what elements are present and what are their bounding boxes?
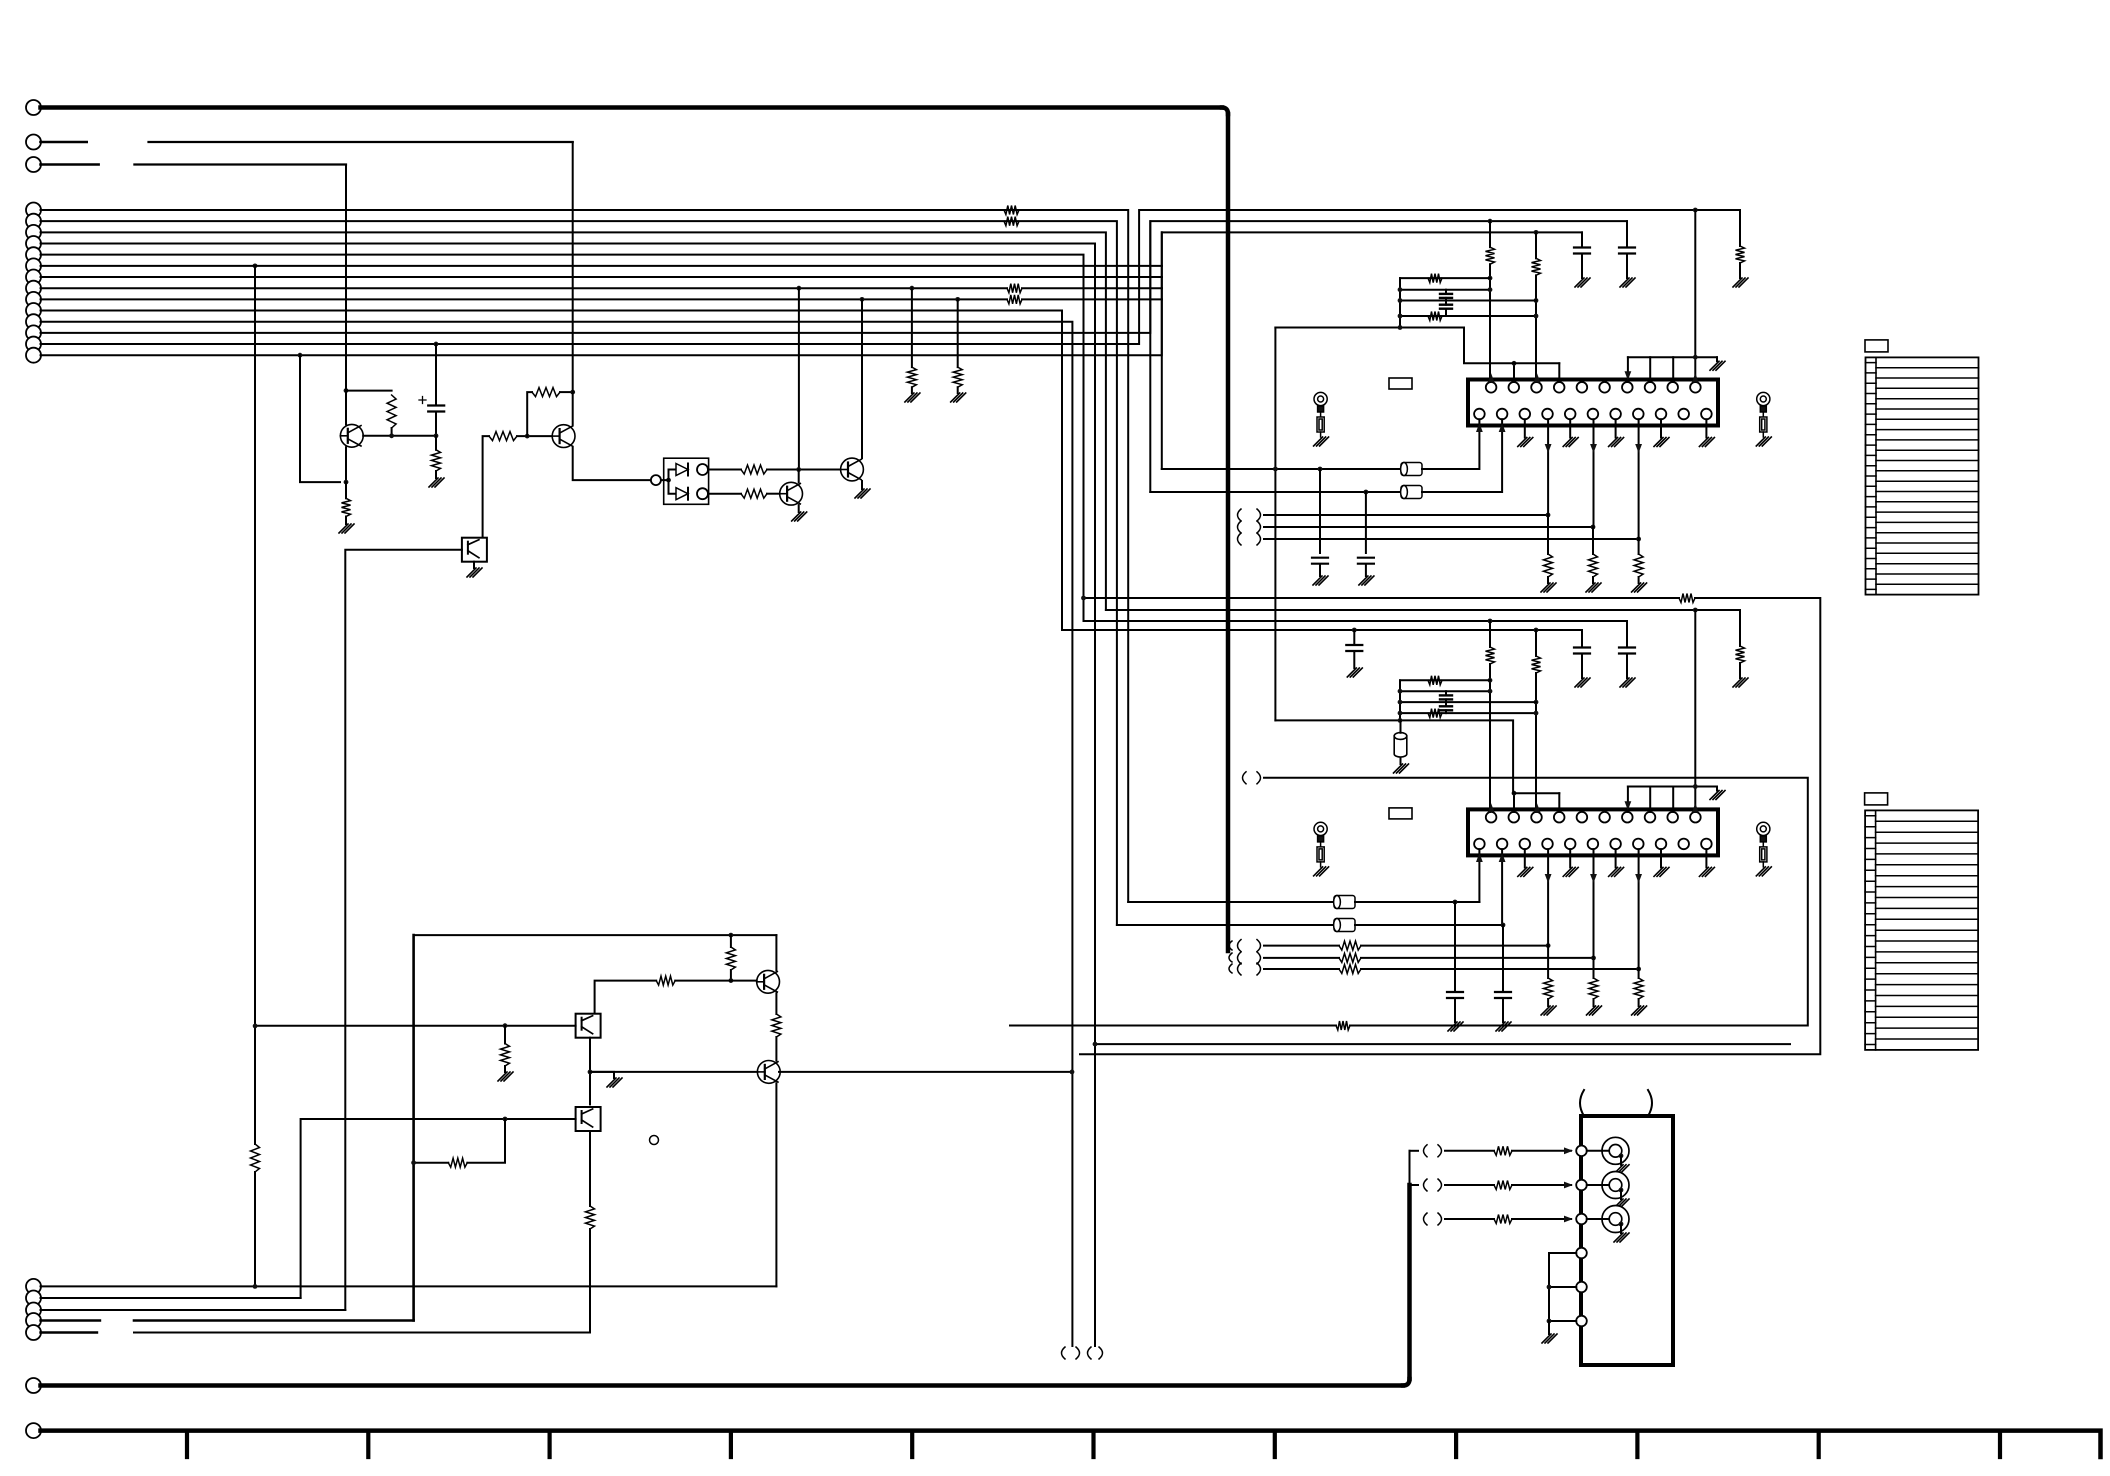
node m2 triple3 bbox=[1636, 967, 1641, 972]
node m2 triple2 bbox=[1591, 956, 1596, 961]
resistor R33s shunt bbox=[1634, 978, 1643, 999]
resistor R14 bbox=[726, 947, 735, 970]
wire rca pin 6 stub bbox=[1549, 1320, 1576, 1322]
node IC2 cluster L2 right bbox=[1488, 689, 1493, 694]
ground under IC2-Rc bbox=[1733, 678, 1748, 687]
wire IC2 riser pin t1 lower bbox=[1489, 664, 1491, 812]
ground under IC1-Cb bbox=[1575, 278, 1590, 287]
RCA jack J2 bbox=[1602, 1172, 1629, 1199]
wire emitter to R9 bbox=[345, 482, 347, 498]
node bead line / C3 bbox=[1364, 490, 1369, 495]
ground under jack J2 bbox=[1614, 1199, 1629, 1208]
node row9-x958 bbox=[955, 297, 960, 302]
resistor IC1-Rc bbox=[1736, 246, 1745, 263]
wire C7 gnd lead bbox=[1353, 652, 1355, 668]
IC IC1 top pin t9 bbox=[1667, 382, 1678, 393]
node rca gnd bus mid bbox=[1547, 1285, 1552, 1290]
wire m2 triple line 3 b bbox=[1361, 968, 1639, 970]
resistor R32s shunt bbox=[1589, 978, 1598, 999]
wire m2 triple3 shunt lead bbox=[1638, 969, 1640, 978]
resistor R23 shunt bbox=[1634, 554, 1643, 577]
wire IC2 cluster caps spine mid bbox=[1445, 699, 1447, 706]
connector pin B3 bbox=[26, 225, 41, 240]
transistor Q5 bbox=[757, 970, 780, 993]
IC IC2 top pin t8 bbox=[1645, 812, 1656, 823]
break mark rca3 l bbox=[1424, 1213, 1428, 1225]
wire FB4 to IC2 b2 bbox=[1355, 924, 1502, 926]
wire IC2 cluster line1 bbox=[1400, 679, 1490, 681]
RCA box pin 6 bbox=[1576, 1316, 1587, 1327]
node IC1 cluster L4 right bbox=[1534, 314, 1539, 319]
arrow down on IC2 drop bbox=[1545, 874, 1552, 883]
resistor IC2-Rd on cluster line1 bbox=[1428, 676, 1442, 685]
wire bus bottom r3 riser to PC1 input bbox=[345, 550, 462, 1310]
break hooks at thick trunk end bbox=[1229, 941, 1232, 950]
wire IC2 riser pin t3 lower bbox=[1535, 673, 1537, 812]
ground at Q6 base stub bbox=[607, 1078, 622, 1087]
wire m2 triple2 shunt lead bbox=[1593, 958, 1595, 978]
node IC2 feed2/riser1 bbox=[1488, 619, 1493, 624]
break mark rca3 r bbox=[1438, 1213, 1442, 1225]
IC IC1 top pin t7 bbox=[1622, 382, 1633, 393]
wire base to R8 bbox=[435, 436, 437, 450]
capacitor IC1-Ca bbox=[1619, 248, 1635, 254]
wire FB2 to module1 pin b2 bbox=[1422, 491, 1502, 493]
wire R7 to base line bbox=[391, 428, 393, 436]
ground under IC2 b9 bbox=[1654, 867, 1669, 876]
wire triple1 to R bbox=[1547, 515, 1549, 554]
ground under IC2 b11 bbox=[1699, 867, 1714, 876]
wire R8 to ground bbox=[435, 471, 437, 478]
resistor network RN1 right cell rungs bbox=[1876, 368, 1979, 585]
arrow into IC1 t10 bbox=[1692, 373, 1699, 382]
resistor R9 emitter bbox=[342, 498, 351, 516]
wire C5 gnd lead bbox=[1502, 999, 1504, 1022]
wire thick power net from P1 to right then down bbox=[41, 105, 1223, 110]
wire bus row9 after series resistor bbox=[1022, 298, 1162, 300]
RCA connector box bbox=[1581, 1116, 1673, 1365]
ground under rca bus bbox=[1542, 1334, 1557, 1343]
resistor R1 series in bus row1 bbox=[1004, 206, 1019, 215]
break mark left m2-triple2 bbox=[1238, 952, 1242, 964]
wire m2 triple line 3 a bbox=[1264, 968, 1339, 970]
wire C5 lead bbox=[1502, 925, 1504, 991]
RCA jack J1 bbox=[1602, 1137, 1629, 1164]
connector pin B10 bbox=[26, 303, 41, 318]
wire IC1 cluster line4 bbox=[1400, 315, 1536, 317]
wire pin to jack 2 bbox=[1587, 1184, 1609, 1186]
wire IC1 cluster line1 bbox=[1400, 277, 1490, 279]
break mark right m2-triple1 bbox=[1257, 940, 1261, 952]
wire C3 to ground bbox=[1365, 565, 1367, 577]
wire IC1 cluster caps spine upper bbox=[1445, 290, 1447, 294]
resistor R3 series in bus row8 bbox=[1007, 284, 1022, 293]
wire R22 to ground bbox=[1592, 577, 1594, 583]
wire C4 lead bbox=[1454, 902, 1456, 991]
wire branch down/left to thick riser bbox=[467, 1119, 505, 1163]
resistor R2 series in bus row2 bbox=[1004, 217, 1019, 226]
wire m1 triple line 3 bbox=[1264, 538, 1639, 540]
wire cap C7 lead bbox=[1353, 630, 1355, 644]
resistor network RN1 outline bbox=[1866, 357, 1979, 594]
node jack 1 ground tap bbox=[1619, 1153, 1624, 1158]
arrow into IC1 b1 bbox=[1476, 423, 1483, 432]
ferrite bead FB3 bbox=[1334, 896, 1355, 909]
wire collector to R7 bbox=[346, 390, 392, 392]
wire P3 stub bbox=[41, 163, 99, 166]
connector pin B1 bbox=[26, 203, 41, 218]
wire inner loop y778 to y1025 bbox=[1264, 778, 1808, 1026]
wire split to diode2 bbox=[669, 480, 677, 494]
ground under Q3 bbox=[792, 512, 807, 521]
wire R17 top lead bbox=[504, 1026, 506, 1044]
capacitor C1 polarized (x=436) bbox=[428, 406, 444, 412]
wire R13 to Q3 base bbox=[767, 493, 780, 495]
ground under R32s bbox=[1587, 1006, 1602, 1015]
IC IC2 bottom pin b10 bbox=[1678, 839, 1689, 850]
wire IC2 bottom pin drop bbox=[1547, 849, 1549, 945]
wire IC2 rail to pin bbox=[1627, 787, 1629, 812]
node PC2 emitter / Q6 base bbox=[588, 1070, 593, 1075]
ground under C7 bbox=[1347, 668, 1362, 677]
resistor R16 Q5 emitter bbox=[772, 1014, 781, 1037]
RCA box pin 4 bbox=[1576, 1248, 1587, 1259]
wire Q2 emitter to diode pack bbox=[573, 448, 651, 481]
resistor R15 bbox=[656, 976, 675, 985]
wire thin riser continuation bbox=[1409, 1151, 1411, 1185]
node bead469/x1275 bbox=[1273, 467, 1278, 472]
node row9-x862 bbox=[860, 297, 865, 302]
transistor Q3 bbox=[780, 482, 803, 505]
wire module2 feed y=630 bbox=[1062, 629, 1582, 631]
node row8-x799 bbox=[797, 286, 802, 291]
wire C2 to ground bbox=[1319, 565, 1321, 577]
break mark y778 r bbox=[1257, 772, 1261, 784]
capacitor IC2-Cc between cluster lines 2-3 bbox=[1440, 695, 1452, 699]
wire m2 triple line 1 b bbox=[1361, 945, 1548, 947]
ferrite bead FB4 bbox=[1334, 919, 1355, 932]
wire module2 feed y=621 bbox=[1084, 620, 1628, 622]
IC IC1 top pin t2 bbox=[1509, 382, 1520, 393]
ground under IC1 b7 bbox=[1609, 438, 1624, 447]
node row13 capacitor tap bbox=[434, 342, 439, 347]
wire IC2 cluster line2 bbox=[1400, 690, 1490, 692]
wire IC1 pin b9 ground stub bbox=[1660, 419, 1662, 437]
IC IC1 top pin t1 bbox=[1486, 382, 1497, 393]
wire m2 triple1 shunt lead bbox=[1547, 946, 1549, 978]
connector pin B5 bbox=[26, 247, 41, 262]
node jack 2 ground tap bbox=[1619, 1188, 1624, 1193]
wire bus row6 bbox=[41, 265, 1163, 267]
ground under IC1-Rc bbox=[1733, 278, 1748, 287]
IC IC2 label box bbox=[1389, 808, 1412, 819]
ground under IC2 b7 bbox=[1609, 867, 1624, 876]
capacitor IC1-Cd between cluster lines 3-4 bbox=[1440, 305, 1452, 309]
IC IC2 connector body bbox=[1468, 809, 1718, 855]
connector pin P1 (thick net) bbox=[26, 100, 41, 115]
wire C1 bottom lead to base line bbox=[435, 412, 437, 436]
resistor R31 bbox=[1339, 941, 1361, 950]
ground under IC1-Ca bbox=[1620, 278, 1635, 287]
wire C3 lead bbox=[1365, 492, 1367, 553]
wire rca feed 2 a bbox=[1445, 1184, 1494, 1186]
node IC2 feed3/riser3 bbox=[1534, 628, 1539, 633]
resistor network RN2 label box bbox=[1865, 793, 1888, 805]
wire row9 branch down to Q4 collector bbox=[861, 299, 863, 458]
ring terminal IC1-TL bbox=[1314, 392, 1327, 437]
wire IC1 rail to pin bbox=[1649, 357, 1651, 382]
wire IC2 riser pin t10 bbox=[1694, 610, 1696, 812]
wire riser to break row2 bbox=[1410, 1184, 1419, 1186]
wire bottom row3 stub bbox=[41, 1309, 346, 1311]
opto-isolator PC2 bbox=[576, 1014, 601, 1038]
wire riser to break row1 bbox=[1410, 1150, 1419, 1152]
wire thick video riser bbox=[1407, 1185, 1412, 1379]
connector pin D2 bbox=[26, 1291, 41, 1306]
node IC1 line5 / cluster left bbox=[1398, 325, 1403, 330]
wire Q4 emitter bbox=[861, 481, 863, 489]
break mark left m1-triple3 bbox=[1238, 533, 1242, 545]
resistor IC2-Re on cluster line4 bbox=[1428, 709, 1442, 718]
IC IC1 top pin t3 bbox=[1531, 382, 1542, 393]
wire thick video net corner up bbox=[1403, 1379, 1410, 1386]
resistor R12 bbox=[741, 465, 767, 474]
node IC2 jog/pin2 bbox=[1512, 791, 1517, 796]
wire top rail y=935 to Q5 collector bbox=[414, 934, 777, 936]
wire net T2 y=164.5 to Q1 collector bbox=[134, 163, 346, 165]
node C1/base bbox=[434, 433, 439, 438]
break mark bottom a1 bbox=[1062, 1347, 1066, 1359]
wire FB3 to IC2 b1 bbox=[1355, 901, 1479, 903]
wire IC1 riser pin t3 upper bbox=[1535, 232, 1537, 258]
wire IC1 cluster line3 bbox=[1400, 300, 1536, 302]
wire bus row13 riser at x1139 to feed y210 bbox=[41, 210, 1741, 344]
opto-isolator PC3 bbox=[576, 1107, 601, 1131]
wire rca feed 1 a bbox=[1445, 1150, 1494, 1152]
wire IC2 rail end stub bbox=[1716, 787, 1718, 791]
node IC1 cluster left bbox=[1398, 314, 1403, 319]
IC IC1 bottom pin b2 bbox=[1497, 409, 1508, 420]
wire C1 top lead (from bus row13) bbox=[435, 344, 437, 405]
arrow into rca pin 3 bbox=[1564, 1216, 1573, 1223]
wire R20 to bottom row5 corner bbox=[589, 1229, 591, 1333]
wire opto0 collector up to Q2 base line bbox=[483, 436, 489, 537]
wire IC1 pin b3 ground stub bbox=[1524, 419, 1526, 437]
wire IC2 bottom pin drop bbox=[1593, 849, 1595, 958]
arrow into IC2 t10 bbox=[1692, 803, 1699, 812]
IC IC2 bottom pin b9 bbox=[1656, 839, 1667, 850]
wire R31s gnd lead bbox=[1547, 999, 1549, 1006]
resistor R13 bbox=[741, 489, 767, 498]
ground under IC2-Cb bbox=[1575, 678, 1590, 687]
IC IC1 bottom pin b7 bbox=[1610, 409, 1621, 420]
IC IC2 top pin t1 bbox=[1486, 812, 1497, 823]
arrow down on IC1 drop bbox=[1545, 444, 1552, 453]
node y1072 at x1072 bbox=[1070, 1070, 1075, 1075]
break mark right m1-triple3 bbox=[1257, 533, 1261, 545]
RCA block caption parens bbox=[1580, 1090, 1584, 1116]
wire IC2 cluster caps spine upper bbox=[1445, 691, 1447, 695]
wire aux loop outer bbox=[1084, 597, 1680, 599]
resistor network RN2 right cell rungs bbox=[1876, 821, 1979, 1039]
wire Q5 emitter bbox=[775, 993, 777, 1014]
wire IC1 rail end stub bbox=[1716, 357, 1718, 361]
node m2 triple1 bbox=[1546, 943, 1551, 948]
IC IC1 bottom pin b5 bbox=[1565, 409, 1576, 420]
ground under PC1 bbox=[467, 568, 482, 577]
IC IC1 top pin t5 bbox=[1577, 382, 1588, 393]
ground under C6 bbox=[1394, 764, 1409, 773]
resistor network RN1 left cell rungs bbox=[1866, 363, 1877, 590]
node y1044/x1095 bbox=[1093, 1042, 1098, 1047]
resistor R8 below base line bbox=[432, 450, 441, 471]
connector pin B8 bbox=[26, 281, 41, 296]
arrow into IC1 t3 bbox=[1534, 373, 1541, 382]
wire IC2 bottom pin drop bbox=[1638, 849, 1640, 969]
transistor Q2 bbox=[552, 425, 575, 448]
wire IC1 Rc gnd lead bbox=[1739, 263, 1741, 278]
wire thick riser x=414 from bottom row4 bbox=[412, 935, 415, 1320]
arrow into IC1 t1 bbox=[1488, 373, 1495, 382]
test point TP1 bbox=[650, 1136, 659, 1145]
IC IC2 bottom pin b2 bbox=[1497, 839, 1508, 850]
wire IC1 jog to pin t4 bbox=[1558, 363, 1560, 382]
wire rca feed 3 a bbox=[1445, 1218, 1494, 1220]
resistor IC2-Ra bbox=[1486, 647, 1495, 664]
wire x1275 riser from bead line bbox=[1274, 469, 1276, 720]
IC IC2 top pin t6 bbox=[1599, 812, 1610, 823]
node row14 tap to Q1 bbox=[298, 353, 303, 358]
wire IC1 cap b gnd lead bbox=[1581, 255, 1583, 279]
wire T2 drop into Q1 collector bbox=[345, 165, 347, 425]
wire Q6 base line from PC2 emitter node bbox=[590, 1071, 757, 1073]
wire IC2 jog to pin t2 bbox=[1513, 793, 1515, 812]
IC IC1 bottom pin b9 bbox=[1656, 409, 1667, 420]
wire IC2 cap b gnd lead bbox=[1581, 655, 1583, 679]
wire bottom row2 stub bbox=[41, 1297, 301, 1299]
ground under C3 bbox=[1359, 576, 1374, 585]
RCA box pin 3 bbox=[1576, 1214, 1587, 1225]
wire IC1 jog to pin t2 bbox=[1513, 363, 1515, 382]
resistor R10 Q2 base bbox=[489, 432, 517, 441]
wire IC2 riser pin t1 upper bbox=[1489, 621, 1491, 647]
wire m1 triple line 2 bbox=[1264, 526, 1593, 528]
wire rca ground bus bbox=[1548, 1253, 1550, 1321]
wire Q4 collector bbox=[861, 299, 863, 458]
IC IC1 top pin t8 bbox=[1645, 382, 1656, 393]
node Q1 emitter bbox=[344, 480, 349, 485]
node m1 triple1 bbox=[1546, 513, 1551, 518]
RCA box pin 5 bbox=[1576, 1282, 1587, 1293]
IC IC2 top pin t4 bbox=[1554, 812, 1565, 823]
arrow into IC2 b1 bbox=[1476, 853, 1483, 862]
wire IC2 jog to pin t4 bbox=[1558, 793, 1560, 812]
resistor network RN1 label box bbox=[1865, 340, 1888, 352]
wire x1275 drop from line5 to bead line bbox=[1274, 328, 1276, 470]
wire bus row7 bbox=[41, 276, 1163, 278]
node rca gnd bus bottom bbox=[1547, 1319, 1552, 1324]
wire bottom row1 bbox=[41, 1285, 777, 1287]
connector pin D5 bbox=[26, 1325, 41, 1340]
wire IC1 cap a gnd lead bbox=[1626, 255, 1628, 279]
wire module2 feed y=610 bbox=[1106, 609, 1740, 611]
wire IC2 cluster left bus bbox=[1399, 680, 1401, 720]
resistor R20 PC3 emitter bbox=[586, 1206, 595, 1229]
node PC3 input branch bbox=[503, 1117, 508, 1122]
diode output terminal 2 bbox=[697, 488, 708, 499]
ground under R17 bbox=[498, 1072, 513, 1081]
wire IC1 rail to pin bbox=[1672, 357, 1674, 382]
ferrite bead FB1 bbox=[1401, 463, 1422, 476]
wire IC1 bottom pin drop bbox=[1593, 419, 1595, 527]
wire R32s gnd lead bbox=[1593, 999, 1595, 1006]
IC IC1 bottom pin b11 bbox=[1701, 409, 1712, 420]
wire ruler spine bbox=[41, 1431, 2101, 1457]
IC IC2 bottom pin b6 bbox=[1588, 839, 1599, 850]
connector pin P3 bbox=[26, 157, 41, 172]
wire bus row6 left vertical x=255 bbox=[254, 266, 256, 1144]
capacitor IC2-Ca bbox=[1619, 648, 1635, 654]
wire rca feed 3 b bbox=[1512, 1218, 1571, 1220]
wire bottom row2 riser to PC3 input bbox=[301, 1119, 576, 1298]
wire Q6 node out to x1072 bbox=[779, 1071, 1072, 1073]
node R19 / x414 bbox=[411, 1160, 416, 1165]
connector pin D3 bbox=[26, 1303, 41, 1318]
node IC1 jog/pin2 bbox=[1512, 361, 1517, 366]
resistor R19 bbox=[448, 1158, 467, 1167]
ring terminal IC2-TR bbox=[1757, 822, 1770, 867]
wire IC2 cap a gnd lead bbox=[1626, 655, 1628, 679]
IC IC2 top pin t5 bbox=[1577, 812, 1588, 823]
wire row8 branch to R5 bbox=[911, 288, 913, 367]
wire IC1 bottom pin drop bbox=[1638, 419, 1640, 539]
node IC1 cluster L2 right bbox=[1488, 287, 1493, 292]
capacitor IC1-Cb bbox=[1574, 248, 1590, 254]
arrow into IC2 b2 bbox=[1499, 853, 1506, 862]
wire IC2 cap b lead bbox=[1581, 630, 1583, 647]
connector pin B12 bbox=[26, 325, 41, 340]
node Q1 base / R7 bbox=[389, 433, 394, 438]
resistor R21 shunt bbox=[1544, 554, 1553, 577]
wire FB1 to module1 pin b1 bbox=[1422, 468, 1479, 470]
ground under IC2 b5 bbox=[1563, 867, 1578, 876]
wire IC1 right rail bbox=[1628, 356, 1717, 358]
wire diode out2 bbox=[708, 493, 741, 495]
wire C4 gnd lead bbox=[1454, 999, 1456, 1022]
wire diode out1 bbox=[708, 469, 741, 471]
resistor IC2-Rc bbox=[1736, 646, 1745, 663]
transistor Q4 bbox=[841, 458, 864, 481]
break mark left m2-triple1 bbox=[1238, 940, 1242, 952]
break mark left m2-triple3 bbox=[1238, 963, 1242, 975]
break mark y778 l bbox=[1243, 772, 1247, 784]
node Q1 collector junction bbox=[344, 388, 349, 393]
node out1 / Q3 collector bbox=[796, 467, 801, 472]
node Q2 collector bias bbox=[570, 390, 575, 395]
node IC2 cluster left bbox=[1398, 700, 1403, 705]
arrow down on IC2 drop bbox=[1590, 874, 1597, 883]
resistor R32 bbox=[1339, 953, 1361, 962]
IC IC2 bottom pin b3 bbox=[1520, 839, 1531, 850]
ground under jack J1 bbox=[1614, 1165, 1629, 1174]
wire bus row5 down at x1083 to module2 feed y621 bbox=[41, 255, 1084, 621]
break mark rca2 l bbox=[1424, 1179, 1428, 1191]
resistor network RN1 left column divider bbox=[1875, 357, 1877, 594]
IC IC2 top pin t3 bbox=[1531, 812, 1542, 823]
wire R14 top lead bbox=[730, 935, 732, 947]
wire IC2 cluster line5 long link bbox=[1275, 720, 1559, 793]
wire long link y=1044 bbox=[1095, 1043, 1790, 1045]
